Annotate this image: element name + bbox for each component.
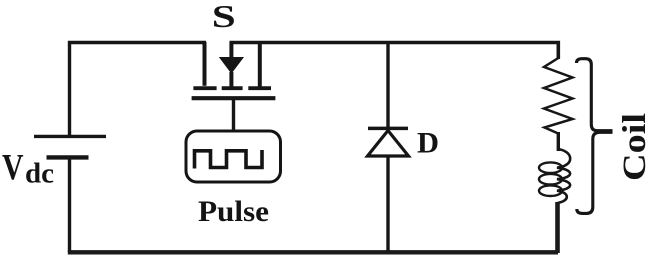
- svg-text:S: S: [212, 0, 236, 35]
- wire: battery negative down to bottom rail: [68, 158, 71, 253]
- wire: inductor to bottom rail: [555, 202, 560, 253]
- inductor loop ellipse 1: [539, 162, 562, 173]
- resistor zigzag of coil branch: [544, 58, 573, 134]
- inductor loop ellipse 3: [539, 185, 562, 196]
- svg-text:V: V: [2, 148, 24, 189]
- MOSFET S gate plate: [192, 96, 276, 100]
- wire: top-right rail from MOSFET drain to coil branch: [230, 43, 559, 60]
- inductor loop ellipse 2: [539, 174, 562, 185]
- MOSFET S gate lead to pulse source: [232, 98, 235, 131]
- wire: resistor to inductor: [557, 132, 560, 151]
- MOSFET S drain contact bar: [248, 86, 271, 90]
- MOSFET S source contact bar: [193, 86, 216, 90]
- MOSFET S body terminal arrow: [229, 42, 233, 58]
- diode D cathode bar: [368, 127, 408, 131]
- diode D triangle: [368, 131, 409, 157]
- pulse generator box: [186, 131, 281, 182]
- brace upper half (coil bracket): [577, 59, 613, 131]
- svg-text:dc: dc: [25, 159, 54, 190]
- battery Vdc negative plate: [47, 155, 89, 159]
- battery Vdc positive plate: [34, 135, 106, 138]
- MOSFET S source terminal: [203, 42, 207, 86]
- wire: top-left rail from battery + to MOSFET source: [70, 43, 207, 138]
- brace lower half (coil bracket): [577, 132, 613, 213]
- MOSFET S drain terminal: [258, 42, 262, 87]
- inductor winding right arcs: [557, 149, 570, 203]
- svg-text:Pulse: Pulse: [198, 195, 269, 228]
- svg-text:D: D: [417, 127, 439, 160]
- MOSFET S body contact bar: [222, 86, 243, 90]
- bottom rail wire: [68, 250, 558, 254]
- wire: diode branch vertical: [386, 43, 389, 253]
- pulse generator square wave: [195, 150, 263, 169]
- svg-text:Coil: Coil: [617, 113, 650, 181]
